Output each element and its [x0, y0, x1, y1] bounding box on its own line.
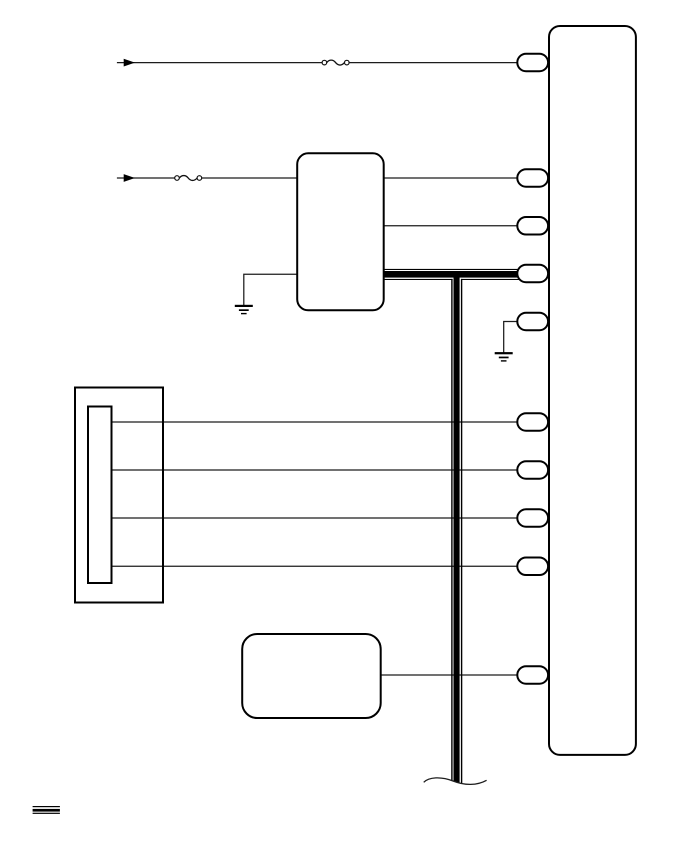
legend mark (shielded-wire key, bottom left) — [33, 806, 60, 814]
pin oval 10 — [517, 666, 548, 684]
pin oval 3 — [517, 217, 548, 235]
arrow A1 (input arrowhead of W1) — [124, 59, 135, 67]
wire W2 (second input wire into module U1) — [117, 177, 298, 179]
wire W5 (U1 ground lead) — [244, 274, 298, 305]
pin oval 4 — [517, 265, 548, 283]
wire W7 (connector J1 line to pin 6) — [112, 421, 518, 423]
wire W8 (connector J1 line to pin 7) — [112, 469, 518, 471]
pin oval 2 — [517, 169, 548, 187]
module U1 (upper middle rounded box) — [297, 153, 384, 310]
wire W3 (U1 output to pin 2) — [383, 177, 518, 179]
arrow A2 (input arrowhead of W2) — [124, 174, 135, 182]
connector J1 outer housing (left) — [75, 388, 163, 603]
bus break wave (torn-end squiggle at bottom of B1) — [424, 778, 487, 800]
inline connector X2 (circle-wave-circle splice on W2) — [175, 176, 202, 181]
pin oval 6 — [517, 413, 548, 431]
pin oval 9 — [517, 558, 548, 576]
wire W10 (connector J1 line to pin 9) — [112, 565, 518, 567]
shielded bus B1 (thick tee wire: U1 to pin 4 and down) — [384, 269, 521, 786]
pin oval 1 — [517, 54, 548, 72]
pin oval 5 — [517, 313, 548, 331]
module U2 (bottom rounded box) — [242, 634, 381, 718]
wire W11 (module U2 output to pin 10) — [380, 674, 518, 676]
ground G1 (earth ground of U1) — [235, 305, 253, 315]
pin oval 8 — [517, 509, 548, 527]
pin oval 7 — [517, 461, 548, 479]
connector J1 inner body — [88, 407, 112, 584]
wire W6 (pin 5 ground lead) — [504, 322, 518, 353]
wire W4 (U1 output to pin 3) — [383, 225, 518, 227]
ground G2 (earth ground at pin 5) — [495, 352, 513, 362]
wire W1 (top signal wire to pin 1) — [117, 62, 518, 64]
control module M1 (large right box) — [549, 26, 636, 755]
wire W9 (connector J1 line to pin 8) — [112, 517, 518, 519]
inline connector X1 (circle-wave-circle splice on W1) — [322, 60, 349, 65]
